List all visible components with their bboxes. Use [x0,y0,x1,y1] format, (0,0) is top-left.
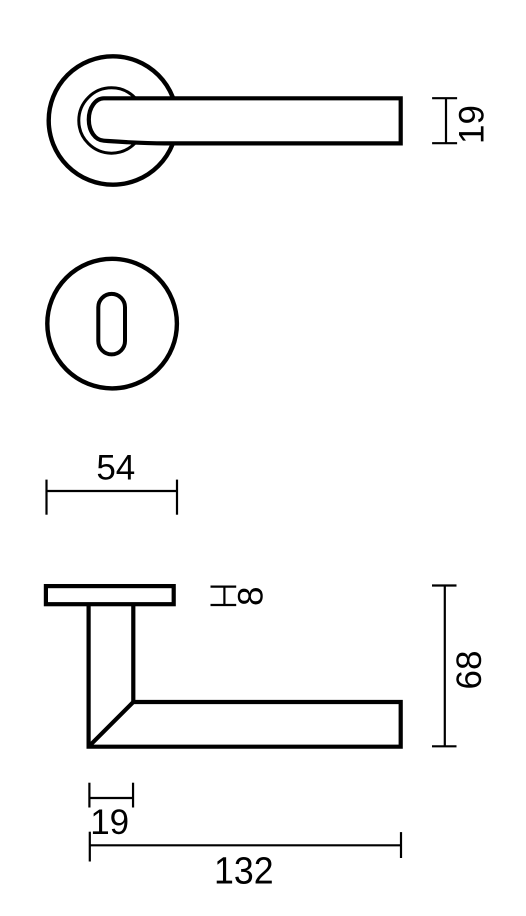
dimension 8 (plate thickness): dimension line [223,587,225,605]
dimension 68 (handle height): top tick [432,584,457,586]
svg-text:54: 54 [96,449,135,488]
dimension 19 (neck width): dimension line [89,797,133,799]
dimension 8 (plate thickness): top tick [211,585,237,587]
escutcheon circle [47,259,177,389]
dimension 19 (neck width): right tick [132,783,134,808]
front view: rose outer circle [49,56,177,184]
front view: lever bar with rounded neck end [89,98,401,143]
dimension 8 (plate thickness): bottom tick [211,604,237,606]
svg-text:8: 8 [232,587,271,606]
dimension 19 (bar thickness): dimension line [445,98,447,143]
svg-text:132: 132 [214,850,274,892]
front view: neck collar inner circle [79,88,144,153]
side view: handle profile (neck, miter, lever arm) [89,606,401,747]
dimension 132 (handle length): dimension line [90,844,401,846]
dimension 132 (handle length): right tick [400,832,402,858]
dimension 19 (bar thickness): top tick [432,97,457,99]
dimension 132 (handle length): left tick [89,832,91,862]
dimension 68 (handle height): dimension line [444,586,446,747]
dimension 19 (neck width): left tick [88,783,90,808]
escutcheon keyhole slot [98,294,125,355]
dimension 19 (bar thickness): bottom tick [432,142,457,144]
side view: rose plate [46,586,174,604]
dimension 54 (rose diameter): dimension line [47,490,178,492]
svg-text:19: 19 [452,105,491,144]
dimension 68 (handle height): bottom tick [432,745,457,747]
dimension 54 (rose diameter): right tick [176,480,178,515]
dimension 54 (rose diameter): left tick [45,480,47,515]
svg-text:68: 68 [450,651,489,690]
svg-text:19: 19 [90,803,129,842]
